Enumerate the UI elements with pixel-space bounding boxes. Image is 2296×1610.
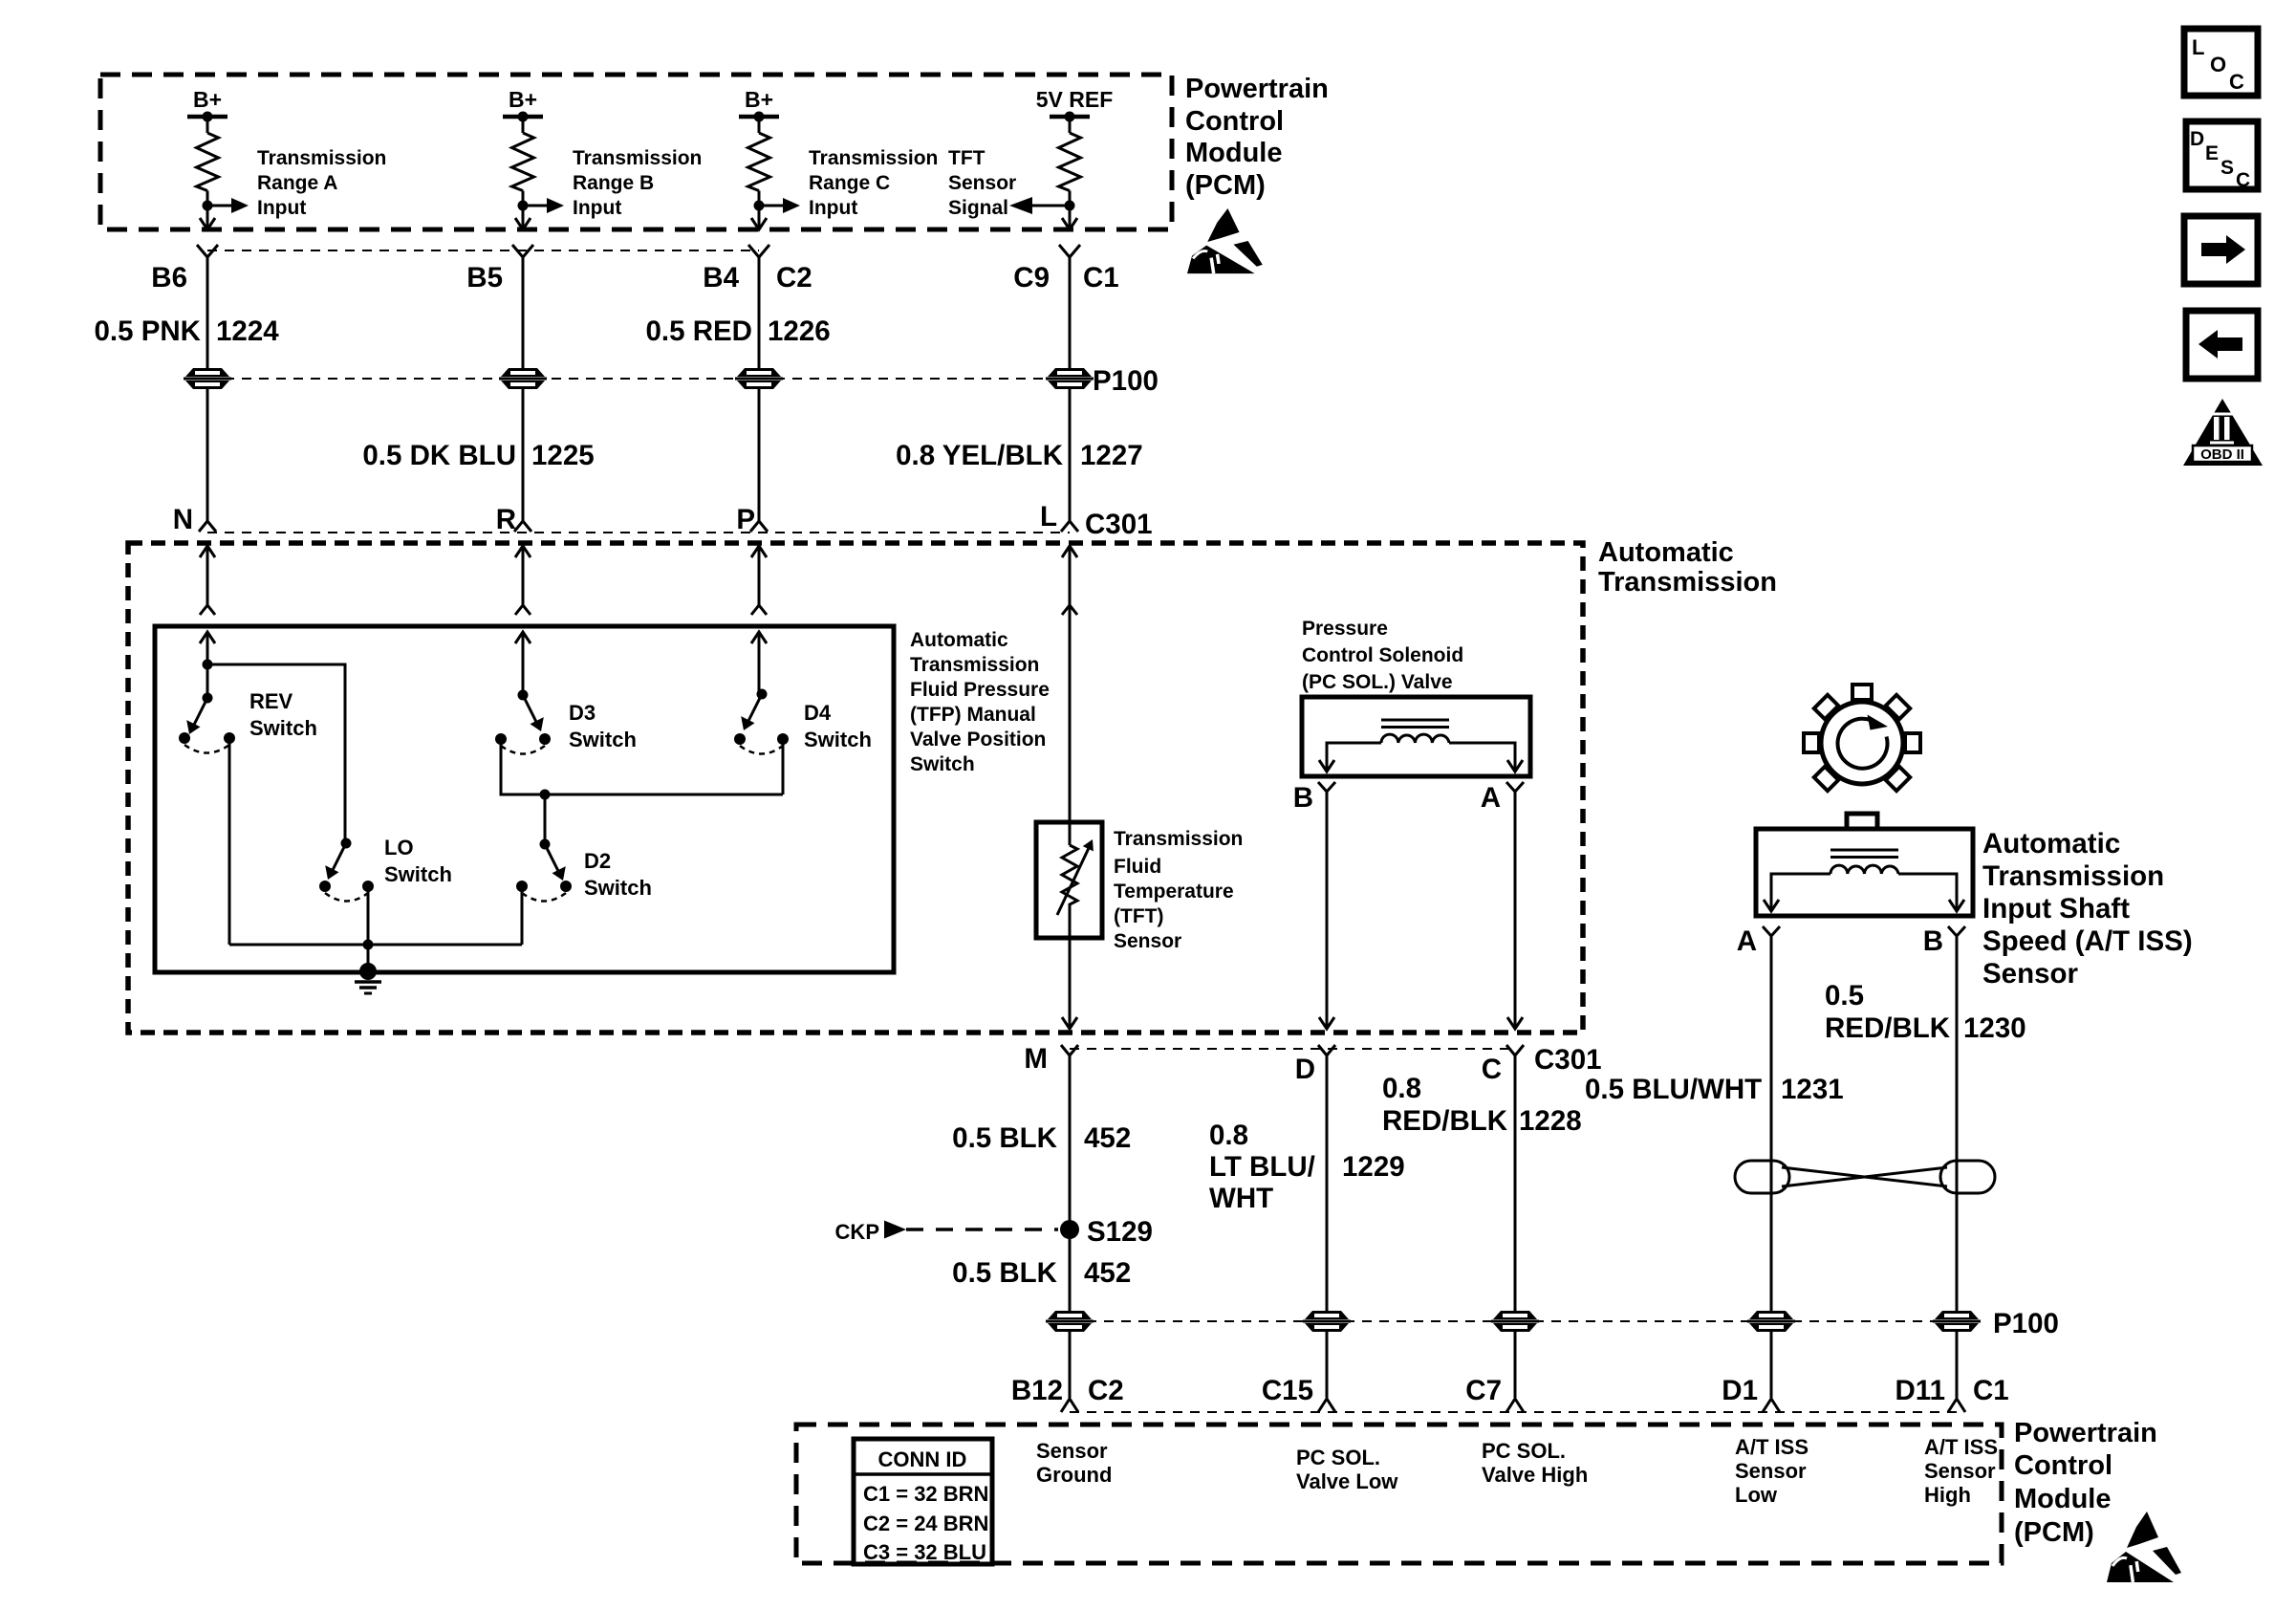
wire 5V REF to PCM pin C9 <box>1069 206 1072 228</box>
PCM module box (top) <box>100 75 1172 229</box>
resistor Transmission Range A Input <box>206 117 209 133</box>
wire TFT sensor to C301 M (arrow) <box>1062 908 1077 1029</box>
svg-text:Input: Input <box>257 197 306 219</box>
switch D4 <box>734 689 789 754</box>
wire R inside TFP (arrow) <box>515 632 531 695</box>
wire 1227 C9 to P100 <box>1069 256 1072 368</box>
svg-text:(PCM): (PCM) <box>1185 170 1266 201</box>
wire REV contact to ground bus <box>228 738 231 945</box>
svg-text:Sensor: Sensor <box>1036 1439 1108 1463</box>
terminal Y pin B6 <box>197 245 218 257</box>
wire LO contact to ground node <box>367 886 370 945</box>
wire 452 P100 to PCM B12 <box>1069 1331 1072 1398</box>
thermistor arrow <box>1057 839 1094 915</box>
terminal Y C301 pin R <box>514 521 531 532</box>
wire 1230 pin B to P100 <box>1956 936 1959 1312</box>
svg-text:B+: B+ <box>745 87 773 112</box>
connector P100 bottom pass-through line <box>1070 1320 1957 1322</box>
label D3 Switch <box>569 701 637 751</box>
svg-text:A/T ISS: A/T ISS <box>1735 1435 1809 1459</box>
switch LO <box>319 838 374 902</box>
wire 1228 C to P100 <box>1514 1055 1517 1312</box>
icon arrow right <box>2184 216 2258 284</box>
wire 1224 B6 to P100 <box>206 256 209 368</box>
svg-text:C301: C301 <box>1534 1044 1602 1076</box>
label 0.8 RED/BLK 1228 <box>1382 1073 1582 1137</box>
switch D3 <box>495 690 551 754</box>
signal arrow Transmission Range C Input <box>759 205 785 207</box>
wire 1226 B4 to P100 <box>758 256 761 368</box>
node Range C junction <box>754 201 765 211</box>
svg-text:Powertrain: Powertrain <box>2014 1418 2157 1448</box>
label A/T ISS Sensor Low <box>1735 1435 1809 1507</box>
wire D2 contact to ground bus <box>521 886 524 945</box>
svg-text:1231: 1231 <box>1781 1074 1844 1105</box>
svg-text:1225: 1225 <box>531 440 595 471</box>
terminal Y pin B4 C2 <box>748 245 769 257</box>
svg-text:P: P <box>736 504 755 535</box>
label Transmission Fluid Temperature (TFT) Sensor <box>1114 828 1243 952</box>
wire 1226 P100 to C301 P <box>758 389 761 521</box>
terminal Y pin C9 C1 <box>1059 245 1080 257</box>
wire 1231 P100 to PCM D1 <box>1770 1331 1773 1398</box>
wire CKP splice (dashed) <box>906 1228 1058 1231</box>
svg-text:Control: Control <box>1185 106 1284 137</box>
connector P100 splice wire 1224 <box>184 368 231 389</box>
svg-text:Input: Input <box>809 197 857 219</box>
svg-text:Signal: Signal <box>948 197 1008 219</box>
node Range B junction <box>518 201 529 211</box>
Automatic Transmission box (dashed) <box>128 543 1583 1033</box>
wire junction to REV pivot <box>206 664 209 698</box>
wire Range A to PCM pin B6 <box>206 206 209 228</box>
wire ground bus <box>229 944 522 946</box>
svg-text:Speed (A/T ISS): Speed (A/T ISS) <box>1982 925 2193 957</box>
svg-text:Low: Low <box>1735 1483 1778 1507</box>
svg-text:C9: C9 <box>1013 262 1050 294</box>
svg-text:C301: C301 <box>1085 509 1153 540</box>
svg-text:B: B <box>1923 925 1943 957</box>
svg-text:Transmission: Transmission <box>1114 828 1243 850</box>
svg-text:C: C <box>2229 70 2244 94</box>
svg-text:Input Shaft: Input Shaft <box>1982 893 2130 925</box>
sensor core A/T ISS <box>1830 850 1898 858</box>
signal arrow TFT Sensor Signal <box>1030 205 1070 207</box>
svg-text:0.5 PNK: 0.5 PNK <box>95 315 202 347</box>
inductor coil PC SOL <box>1381 734 1449 743</box>
label PC SOL. Valve Low <box>1296 1446 1398 1493</box>
svg-text:C1: C1 <box>1083 262 1119 294</box>
terminal Y PCM pin B12 C2 <box>1061 1399 1078 1412</box>
svg-text:Transmission: Transmission <box>910 654 1039 676</box>
wire L into transmission (arrow) <box>1062 546 1077 615</box>
PCM module box (bottom) <box>796 1425 2002 1563</box>
label TFT Sensor Signal <box>948 147 1016 219</box>
svg-text:D: D <box>1295 1054 1315 1085</box>
label Automatic Transmission Input Shaft Speed (A/T ISS) Sensor <box>1982 828 2193 990</box>
switch D2 <box>516 839 572 902</box>
terminal Y PCM pin C7 <box>1506 1399 1524 1412</box>
ESD warning symbol top <box>1187 208 1263 273</box>
svg-text:0.5 DK BLU: 0.5 DK BLU <box>362 440 516 471</box>
svg-text:1226: 1226 <box>768 315 831 347</box>
terminal Y PC SOL pin B <box>1318 782 1335 792</box>
wire D3 contact to D2 bus <box>501 739 783 794</box>
svg-text:L: L <box>1040 501 1057 533</box>
svg-text:Transmission: Transmission <box>573 147 702 169</box>
svg-text:B4: B4 <box>703 262 739 294</box>
solenoid core PC SOL <box>1381 720 1449 728</box>
svg-text:RED/BLK: RED/BLK <box>1382 1105 1508 1137</box>
svg-text:Transmission: Transmission <box>1982 860 2164 892</box>
svg-text:C3 = 32 BLU: C3 = 32 BLU <box>863 1540 986 1564</box>
svg-text:A: A <box>1481 782 1501 814</box>
wire 1225 P100 to C301 R <box>522 389 525 521</box>
svg-text:PC SOL.: PC SOL. <box>1482 1439 1566 1463</box>
svg-text:High: High <box>1924 1483 1971 1507</box>
svg-text:P100: P100 <box>1993 1308 2059 1339</box>
svg-text:452: 452 <box>1084 1257 1131 1289</box>
svg-text:Switch: Switch <box>804 728 872 751</box>
svg-text:Sensor: Sensor <box>948 172 1016 194</box>
wire coil to pin A (arrow) <box>1449 743 1523 772</box>
svg-text:TFT: TFT <box>948 147 986 169</box>
terminal Y ISS pin A <box>1763 926 1780 936</box>
label D4 Switch <box>804 701 872 751</box>
svg-text:C1 = 32 BRN: C1 = 32 BRN <box>863 1482 988 1506</box>
wire Range B to PCM pin B5 <box>522 206 525 228</box>
svg-text:(PCM): (PCM) <box>2014 1517 2094 1548</box>
svg-text:LT BLU/: LT BLU/ <box>1209 1151 1315 1183</box>
label Transmission Range C Input <box>809 147 938 219</box>
resistor Transmission Range C Input <box>758 117 761 133</box>
node Range A junction <box>203 201 213 211</box>
svg-text:Sensor: Sensor <box>1924 1459 1996 1483</box>
svg-text:Valve Low: Valve Low <box>1296 1469 1398 1493</box>
connector P100 splice wire 1230 <box>1933 1311 1981 1332</box>
connector P100 splice wire 1225 <box>499 368 547 389</box>
node REV feed junction <box>203 660 213 670</box>
wire junction to LO switch <box>207 664 345 843</box>
svg-text:Transmission: Transmission <box>809 147 938 169</box>
wire 452 M to S129 <box>1069 1055 1072 1312</box>
wire coil to pin B (arrow) <box>1319 743 1381 772</box>
connector P100 splice wire 1228 <box>1491 1311 1539 1332</box>
wire Range C to PCM pin B4 <box>758 206 761 228</box>
svg-text:D2: D2 <box>584 849 611 873</box>
ESD warning symbol bottom <box>2107 1512 2181 1582</box>
connector P100 pass-through line <box>207 378 1070 380</box>
signal arrow CKP <box>884 1221 906 1239</box>
wire coil to pin A (arrow) <box>1764 874 1830 911</box>
svg-text:C2: C2 <box>776 262 812 294</box>
A/T ISS sensor mounting tab <box>1847 814 1877 829</box>
svg-text:Range C: Range C <box>809 172 890 194</box>
wire 1227 L to TFT sensor <box>1069 605 1072 845</box>
label Automatic Transmission Fluid Pressure (TFP) Manual Valve Position Switch <box>910 629 1050 775</box>
icon OBD II triangle <box>2183 399 2263 466</box>
svg-text:Sensor: Sensor <box>1114 930 1181 952</box>
connector P100 splice wire 1227 <box>1046 368 1094 389</box>
terminal Y ISS pin B <box>1948 926 1965 936</box>
svg-text:Range B: Range B <box>573 172 654 194</box>
terminal Y PCM pin D1 <box>1763 1399 1780 1412</box>
svg-text:S129: S129 <box>1087 1216 1153 1248</box>
resistor Transmission Range B Input <box>522 117 525 133</box>
connector P100 splice wire 1231 <box>1747 1311 1795 1332</box>
svg-text:O: O <box>2210 53 2226 76</box>
label 0.5 RED/BLK 1230 <box>1825 980 2026 1044</box>
svg-text:Sensor: Sensor <box>1735 1459 1807 1483</box>
svg-text:0.5 RED: 0.5 RED <box>646 315 753 347</box>
svg-text:Switch: Switch <box>569 728 637 751</box>
svg-text:C1: C1 <box>1973 1375 2009 1406</box>
svg-text:0.8: 0.8 <box>1209 1120 1248 1151</box>
svg-text:M: M <box>1024 1043 1048 1075</box>
svg-text:0.5: 0.5 <box>1825 980 1864 1012</box>
terminal Y PC SOL pin A <box>1506 782 1524 792</box>
svg-text:452: 452 <box>1084 1122 1131 1154</box>
node D2 feed junction <box>540 790 551 800</box>
thermistor TFT <box>1062 845 1077 908</box>
wire R into transmission (arrow) <box>515 546 531 615</box>
svg-text:REV: REV <box>249 689 293 713</box>
svg-text:5V REF: 5V REF <box>1036 87 1114 112</box>
svg-text:Pressure: Pressure <box>1302 618 1388 640</box>
svg-text:Automatic: Automatic <box>910 629 1008 651</box>
wire N inside TFP (arrow) <box>200 632 215 664</box>
label Transmission Range B Input <box>573 147 702 219</box>
svg-text:E: E <box>2205 142 2219 164</box>
svg-text:Valve Position: Valve Position <box>910 729 1046 751</box>
svg-text:N: N <box>173 504 193 535</box>
terminal Y C301 pin M <box>1061 1045 1078 1055</box>
label Pressure Control Solenoid (PC SOL.) Valve <box>1302 618 1463 693</box>
label 0.8 LT BLU/ WHT 1229 <box>1209 1120 1405 1214</box>
svg-text:B+: B+ <box>509 87 537 112</box>
switch REV <box>179 693 235 753</box>
connector C301 bottom pin line (dashed) <box>1070 1048 1515 1050</box>
svg-text:Transmission: Transmission <box>1598 567 1777 598</box>
svg-text:Fluid Pressure: Fluid Pressure <box>910 679 1050 701</box>
svg-text:CONN ID: CONN ID <box>878 1447 967 1471</box>
svg-text:1230: 1230 <box>1963 1012 2026 1044</box>
svg-text:C2 = 24 BRN: C2 = 24 BRN <box>863 1512 988 1535</box>
svg-text:C15: C15 <box>1262 1375 1313 1406</box>
svg-text:D11: D11 <box>1895 1375 1946 1406</box>
wire P inside TFP (arrow) <box>751 632 767 694</box>
node splice S129 <box>1060 1220 1079 1239</box>
svg-text:Ground: Ground <box>1036 1463 1112 1487</box>
svg-text:A/T ISS: A/T ISS <box>1924 1435 1998 1459</box>
svg-text:OBD II: OBD II <box>2200 446 2244 463</box>
terminal Y C301 pin N <box>199 521 216 532</box>
svg-text:Range A: Range A <box>257 172 337 194</box>
svg-text:PC SOL.: PC SOL. <box>1296 1446 1380 1469</box>
terminal Y C301 pin L <box>1061 521 1078 532</box>
svg-text:Control Solenoid: Control Solenoid <box>1302 644 1463 666</box>
svg-text:Transmission: Transmission <box>257 147 386 169</box>
reluctor gear icon <box>1804 685 1920 791</box>
icon DESC <box>2186 121 2258 191</box>
svg-text:C: C <box>2236 169 2250 191</box>
label 0.5 BLU/WHT 1231 <box>1585 1074 1844 1105</box>
svg-text:Switch: Switch <box>249 716 317 740</box>
svg-text:Switch: Switch <box>584 876 652 900</box>
svg-text:(PC SOL.) Valve: (PC SOL.) Valve <box>1302 671 1453 693</box>
svg-text:(TFP) Manual: (TFP) Manual <box>910 704 1036 726</box>
svg-text:Automatic: Automatic <box>1598 537 1734 568</box>
wire 1228 pin A to C301 C (arrow) <box>1507 792 1523 1029</box>
svg-text:Fluid: Fluid <box>1114 856 1161 878</box>
svg-text:B: B <box>1293 782 1313 814</box>
svg-text:L: L <box>2192 35 2204 59</box>
label A/T ISS Sensor High <box>1924 1435 1998 1507</box>
wire P into transmission (arrow) <box>751 546 767 615</box>
node TFT signal junction <box>1065 201 1075 211</box>
svg-text:LO: LO <box>384 836 414 859</box>
wire 1224 P100 to C301 N <box>206 389 209 521</box>
wire 1230 P100 to PCM D11 <box>1956 1331 1959 1398</box>
svg-text:C: C <box>1482 1054 1502 1085</box>
label Sensor Ground <box>1036 1439 1112 1487</box>
svg-text:1228: 1228 <box>1519 1105 1582 1137</box>
TFP manual valve position switch box <box>155 626 894 972</box>
svg-text:Sensor: Sensor <box>1982 958 2079 990</box>
svg-text:D1: D1 <box>1722 1375 1758 1406</box>
wire D4 contact to D2 bus <box>782 739 785 794</box>
wire 1225 B5 to P100 <box>522 256 525 368</box>
svg-text:RED/BLK: RED/BLK <box>1825 1012 1951 1044</box>
terminal Y C301 pin C <box>1506 1045 1524 1055</box>
twisted pair symbol <box>1735 1161 1995 1193</box>
wire coil to pin B (arrow) <box>1898 874 1964 911</box>
CONN ID table <box>854 1439 992 1564</box>
svg-text:0.8 YEL/BLK: 0.8 YEL/BLK <box>896 440 1064 471</box>
terminal Y C301 pin P <box>750 521 768 532</box>
resistor 5V REF TFT <box>1069 117 1072 133</box>
TFT sensor box <box>1036 822 1102 938</box>
svg-text:R: R <box>496 504 516 535</box>
terminal Y PCM pin C15 <box>1318 1399 1335 1412</box>
terminal Y pin B5 <box>512 245 533 257</box>
svg-text:WHT: WHT <box>1209 1183 1273 1214</box>
svg-text:D: D <box>2190 128 2204 150</box>
svg-text:0.8: 0.8 <box>1382 1073 1421 1104</box>
wire 1229 pin B to C301 D (arrow) <box>1319 792 1334 1029</box>
svg-text:Valve High: Valve High <box>1482 1463 1588 1487</box>
label Powertrain Control Module (PCM) top <box>1185 74 1329 201</box>
svg-text:B12: B12 <box>1011 1375 1063 1406</box>
svg-text:D3: D3 <box>569 701 596 725</box>
wire 1231 pin A to P100 <box>1770 936 1773 1312</box>
wire to ground <box>367 945 370 966</box>
connector C2 pin line (dashed) <box>207 250 759 251</box>
svg-text:A: A <box>1737 925 1757 957</box>
icon arrow left <box>2186 311 2258 379</box>
svg-text:Switch: Switch <box>384 862 452 886</box>
label D2 Switch <box>584 849 652 900</box>
label Powertrain Control Module (PCM) bottom <box>2014 1418 2157 1548</box>
node ground junction <box>363 940 374 950</box>
svg-text:(TFT): (TFT) <box>1114 905 1163 927</box>
ground <box>355 963 381 993</box>
signal arrow Transmission Range B Input <box>523 205 549 207</box>
svg-text:Automatic: Automatic <box>1982 828 2120 859</box>
label LO Switch <box>384 836 452 886</box>
svg-text:Module: Module <box>1185 138 1283 168</box>
connector PCM bottom pin line (dashed) <box>1070 1411 1957 1413</box>
connector P100 splice wire 452 <box>1046 1311 1094 1332</box>
svg-text:C2: C2 <box>1088 1375 1124 1406</box>
svg-text:0.5 BLK: 0.5 BLK <box>952 1122 1058 1154</box>
svg-text:Control: Control <box>2014 1450 2112 1481</box>
label Automatic Transmission <box>1598 537 1777 598</box>
label PC SOL. Valve High <box>1482 1439 1588 1487</box>
terminal Y C301 pin D <box>1318 1045 1335 1055</box>
wire 1229 D to P100 <box>1326 1055 1329 1312</box>
svg-text:P100: P100 <box>1093 365 1159 397</box>
svg-text:1229: 1229 <box>1342 1151 1405 1183</box>
PC solenoid valve box <box>1302 697 1530 776</box>
svg-text:1224: 1224 <box>216 315 279 347</box>
svg-text:S: S <box>2220 157 2234 179</box>
label Transmission Range A Input <box>257 147 386 219</box>
wire 1227 P100 to C301 L <box>1069 389 1072 521</box>
svg-text:Switch: Switch <box>910 753 975 775</box>
A/T ISS sensor box <box>1756 829 1973 916</box>
svg-text:B6: B6 <box>151 262 187 294</box>
svg-text:C7: C7 <box>1465 1375 1502 1406</box>
connector C301 pin line (dashed) <box>207 532 1070 533</box>
svg-text:0.5 BLK: 0.5 BLK <box>952 1257 1058 1289</box>
svg-text:Temperature: Temperature <box>1114 881 1234 903</box>
svg-text:Input: Input <box>573 197 621 219</box>
svg-text:D4: D4 <box>804 701 832 725</box>
connector P100 splice wire 1226 <box>735 368 783 389</box>
wire 1228 P100 to PCM C7 <box>1514 1331 1517 1398</box>
svg-text:Powertrain: Powertrain <box>1185 74 1329 104</box>
label REV Switch <box>249 689 317 740</box>
signal arrow Transmission Range A Input <box>207 205 233 207</box>
svg-text:CKP: CKP <box>835 1220 879 1244</box>
terminal Y PCM pin D11 C1 <box>1948 1399 1965 1412</box>
svg-text:1227: 1227 <box>1080 440 1143 471</box>
icon LOC <box>2184 29 2258 96</box>
svg-text:Module: Module <box>2014 1484 2112 1514</box>
wire N into transmission (arrow) <box>200 546 215 615</box>
svg-text:0.5 BLU/WHT: 0.5 BLU/WHT <box>1585 1074 1762 1105</box>
svg-text:B+: B+ <box>193 87 222 112</box>
pickup coil A/T ISS <box>1830 865 1898 874</box>
svg-text:B5: B5 <box>466 262 503 294</box>
connector P100 splice wire 1229 <box>1303 1311 1351 1332</box>
wire junction to D2 pivot <box>544 794 547 844</box>
wire 1229 P100 to PCM C15 <box>1326 1331 1329 1398</box>
